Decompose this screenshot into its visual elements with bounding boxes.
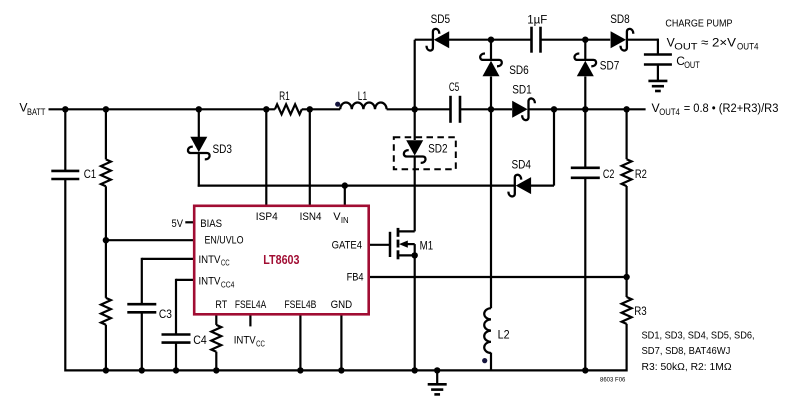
wire FSEL4A stub: [249, 314, 251, 326]
svg-text:CC: CC: [256, 339, 265, 348]
pin INTVCC4: [199, 276, 235, 290]
wire ISN4 pin: [309, 109, 311, 206]
label SD8: [610, 12, 630, 26]
wire INTVCC4 to C4: [176, 279, 194, 371]
wire SD3 anode: [198, 109, 200, 137]
wire SD4 riser: [553, 109, 555, 185]
wire C5 to SD1: [460, 108, 512, 110]
wire R3 column: [625, 277, 627, 372]
pin FSEL4B: [284, 299, 316, 311]
wire COUT top: [657, 39, 659, 55]
wire INTVCC to C3: [142, 258, 194, 371]
label VOUT equation: [667, 35, 759, 51]
wire SD7 column: [584, 40, 586, 110]
svg-text:SD2: SD2: [428, 142, 448, 156]
diode SD3: [188, 137, 210, 160]
svg-text:5V: 5V: [172, 218, 184, 230]
wire SD2 to M1 drain: [414, 157, 416, 232]
svg-text:BATT: BATT: [27, 107, 46, 117]
junction M1 source: [412, 252, 418, 258]
wire SD3 to node wire: [198, 154, 200, 187]
svg-text:LT8603: LT8603: [263, 253, 299, 267]
svg-text:SD4: SD4: [512, 158, 532, 172]
wire ground rail: [65, 369, 626, 371]
pin GND: [331, 299, 353, 311]
junction SD3/VBATT: [196, 106, 202, 112]
junction divider/ground: [103, 367, 109, 373]
svg-text:GND: GND: [331, 299, 353, 311]
junction divider/VBATT: [103, 106, 109, 112]
svg-text:OUT4: OUT4: [737, 41, 759, 51]
pin BIAS: [200, 218, 222, 230]
resistor RT: [211, 325, 221, 352]
wire L1 to C5: [387, 108, 451, 110]
pin INTVCC: [199, 254, 230, 268]
label 1uF: [527, 13, 547, 27]
ground COUT: [648, 81, 667, 91]
junction ISP4/R1: [263, 106, 269, 112]
label M1: [420, 238, 434, 252]
wire SD5 to 1uF: [449, 39, 532, 41]
svg-text:INTV: INTV: [199, 276, 222, 288]
pin GATE4: [332, 240, 362, 252]
label L2: [498, 327, 510, 341]
svg-text:8603 F06: 8603 F06: [600, 376, 626, 383]
wire SD1 to VOUT4: [529, 108, 646, 110]
junction RT/ground: [213, 367, 219, 373]
pin ISP4: [256, 211, 278, 223]
transistor M1: [390, 228, 415, 259]
svg-text:= 0.8 • (R2+R3)/R3: = 0.8 • (R2+R3)/R3: [684, 101, 779, 115]
svg-text:C3: C3: [159, 307, 172, 321]
pin ISN4: [300, 211, 322, 223]
pin FSEL4A: [235, 299, 267, 311]
pin RT: [215, 299, 227, 311]
svg-text:C2: C2: [603, 167, 615, 181]
svg-text:RT: RT: [215, 299, 227, 311]
svg-text:EN/UVLO: EN/UVLO: [205, 235, 244, 247]
junction GND pin/ground: [338, 367, 344, 373]
label SD3: [213, 142, 233, 156]
wire GND pin: [340, 314, 342, 370]
junction C2/SD7/VOUT4: [582, 106, 588, 112]
svg-text:GATE4: GATE4: [332, 240, 362, 252]
resistor divider lower: [101, 298, 111, 325]
svg-text:M1: M1: [420, 238, 434, 252]
junction EN/UVLO node: [103, 237, 109, 243]
wire divider column: [105, 109, 107, 370]
svg-text:FSEL4B: FSEL4B: [284, 299, 316, 311]
label R2: [635, 167, 647, 181]
diode SD2: [404, 140, 426, 163]
wire L2 column: [490, 109, 492, 308]
diode SD1: [512, 98, 535, 120]
pin VIN: [333, 211, 349, 225]
svg-text:OUT: OUT: [684, 60, 700, 70]
svg-text:FSEL4A: FSEL4A: [235, 299, 267, 311]
wire COUT to ground: [657, 65, 659, 81]
svg-text:IN: IN: [341, 216, 349, 225]
label C4: [193, 333, 207, 347]
svg-text:R3: R3: [634, 304, 647, 318]
inductor L2: [484, 308, 491, 353]
svg-text:C5: C5: [449, 80, 460, 94]
junction C5/SD1/SD6/L2 node: [488, 106, 494, 112]
wire SD4 to riser: [530, 185, 554, 187]
svg-text:≈ 2×V: ≈ 2×V: [701, 35, 737, 49]
wire EN/UVLO: [106, 239, 194, 241]
resistor R3: [622, 297, 632, 324]
label VOUT4 equation: [652, 101, 779, 117]
label LT8603: [263, 253, 299, 267]
diode SD6: [480, 54, 502, 77]
label 5V: [172, 218, 184, 230]
svg-text:1µF: 1µF: [527, 13, 547, 27]
wire C2 column: [584, 109, 586, 370]
junction M1 source/ground: [412, 367, 418, 373]
junction SD5/SD6/1uF node: [488, 37, 494, 43]
ground symbol: [428, 384, 447, 394]
label SD5: [431, 12, 451, 26]
pin FB4: [347, 272, 364, 284]
label C2: [603, 167, 615, 181]
capacitor C4: [162, 335, 191, 343]
label SD1: [512, 82, 532, 96]
junction R2/VOUT4: [623, 106, 629, 112]
label R1: [279, 89, 290, 103]
wire M1 source to ground rail: [414, 255, 416, 370]
junction ISN4/R1: [307, 106, 313, 112]
svg-text:SD7, SD8, BAT46WJ: SD7, SD8, BAT46WJ: [642, 345, 731, 357]
wire FB4: [369, 276, 627, 278]
junction SD7/1uF/SD8 node: [582, 37, 588, 43]
wire 5V stub: [185, 221, 194, 223]
capacitor COUT: [644, 55, 672, 65]
junction VIN node: [342, 182, 348, 188]
phase dot L1: [335, 102, 340, 107]
label SD2: [428, 142, 448, 156]
svg-text:R1: R1: [279, 89, 290, 103]
svg-text:SD1: SD1: [512, 82, 532, 96]
wire R2 column: [625, 109, 627, 277]
label SD6: [509, 63, 529, 77]
wire L2 to ground rail: [490, 353, 492, 371]
svg-text:FB4: FB4: [347, 272, 364, 284]
junction ground symbol: [434, 367, 440, 373]
pin EN/UVLO: [205, 235, 244, 247]
wire FSEL4B pin: [299, 314, 301, 370]
svg-text:R3: 50kΩ, R2: 1MΩ: R3: 50kΩ, R2: 1MΩ: [642, 361, 732, 373]
label figure number: [600, 376, 626, 383]
wire R1 to L1: [302, 108, 341, 110]
label VBATT: [19, 101, 45, 118]
svg-text:INTV: INTV: [199, 254, 222, 266]
label COUT: [676, 54, 700, 70]
junction C3/ground: [139, 367, 145, 373]
svg-text:ISP4: ISP4: [256, 211, 278, 223]
svg-text:SD6: SD6: [509, 63, 529, 77]
capacitor C2: [571, 168, 600, 178]
junction FB4/R2/R3 node: [623, 274, 629, 280]
svg-text:C1: C1: [84, 167, 97, 181]
dashed box M1 body diode: [394, 137, 456, 169]
capacitor C1: [51, 171, 79, 179]
note diodes line 1: [642, 329, 755, 341]
diode SD4: [508, 175, 531, 197]
wire GATE4 pin: [369, 244, 390, 246]
capacitor C5: [451, 96, 461, 123]
wire SD8 to COUT corner: [626, 39, 658, 41]
phase dot L2: [482, 358, 487, 363]
diode SD5: [427, 29, 450, 51]
wire 1uF to SD8: [541, 39, 611, 41]
svg-text:R2: R2: [635, 167, 647, 181]
svg-text:SD5: SD5: [431, 12, 451, 26]
label R3: [634, 304, 647, 318]
diode SD8: [611, 29, 634, 51]
wire VIN pin: [344, 186, 346, 206]
junction switch node: [412, 106, 418, 112]
junction FSEL4B/ground: [297, 367, 303, 373]
label INTVCC tie: [234, 335, 265, 349]
capacitor C3: [127, 304, 156, 312]
svg-text:INTV: INTV: [234, 335, 257, 347]
diode SD7: [574, 54, 596, 77]
wire C1 column: [64, 109, 66, 371]
resistor divider upper: [101, 159, 111, 186]
wire switch node column upper: [414, 40, 416, 140]
svg-text:L1: L1: [358, 89, 368, 103]
label L1: [358, 89, 368, 103]
note resistors: [642, 361, 732, 373]
label SD4: [512, 158, 532, 172]
svg-text:CC4: CC4: [221, 280, 235, 289]
svg-text:OUT: OUT: [674, 41, 698, 51]
svg-text:SD1, SD3, SD4, SD5, SD6,: SD1, SD3, SD4, SD5, SD6,: [642, 329, 755, 341]
wire ISP4 pin: [265, 109, 267, 206]
svg-text:CC: CC: [221, 259, 230, 268]
wire ground symbol stem: [436, 370, 438, 384]
label C5: [449, 80, 460, 94]
label SD7: [600, 59, 620, 73]
svg-text:BIAS: BIAS: [200, 218, 222, 230]
inductor L1: [340, 102, 386, 109]
wire RT pin: [215, 314, 217, 370]
IC U1 LT8603: [194, 206, 369, 314]
resistor R1: [275, 104, 302, 114]
svg-text:SD8: SD8: [610, 12, 630, 26]
label C1: [84, 167, 97, 181]
resistor R2: [622, 159, 632, 186]
wire SD3 to SD4: [198, 185, 515, 187]
wire VBATT rail: [49, 108, 275, 110]
junction SD1/SD4 node: [551, 106, 557, 112]
wire SD6 column: [490, 40, 492, 110]
svg-text:ISN4: ISN4: [300, 211, 322, 223]
svg-text:SD3: SD3: [213, 142, 233, 156]
note diodes line 2: [642, 345, 731, 357]
junction C4/ground: [173, 367, 179, 373]
label CHARGE PUMP: [665, 17, 732, 29]
wire top rail left: [415, 39, 434, 41]
svg-text:CHARGE PUMP: CHARGE PUMP: [665, 17, 732, 29]
junction C1/VBATT: [62, 106, 68, 112]
label C3: [159, 307, 172, 321]
capacitor 1uF: [532, 27, 541, 53]
svg-text:L2: L2: [498, 327, 510, 341]
svg-text:SD7: SD7: [600, 59, 620, 73]
junction C2/ground: [582, 367, 588, 373]
svg-text:OUT4: OUT4: [659, 107, 680, 117]
svg-text:C4: C4: [193, 333, 207, 347]
